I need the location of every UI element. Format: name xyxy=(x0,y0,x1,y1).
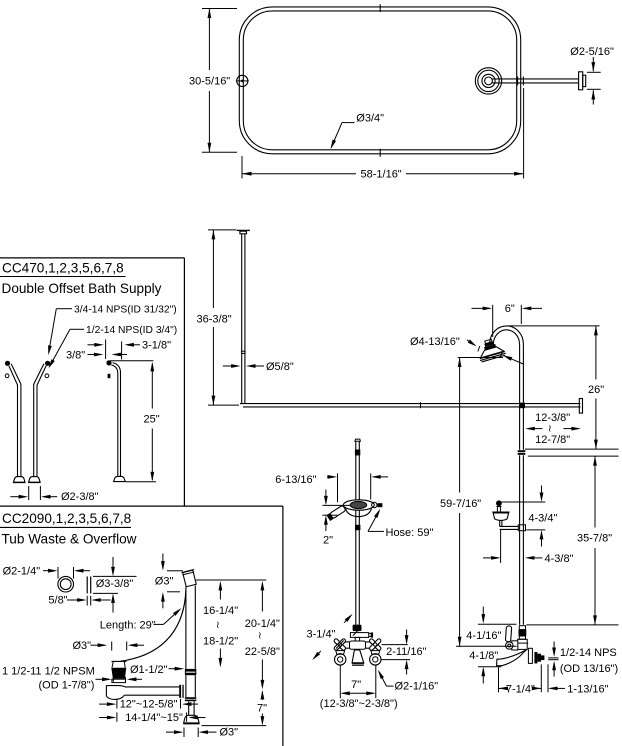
dim text 18-1/2 xyxy=(203,636,238,648)
label npsm leader xyxy=(96,677,112,681)
rod joint ticks xyxy=(241,351,246,353)
box shared border xyxy=(0,505,283,507)
dim 6 ext left xyxy=(492,305,494,337)
dim 3/8 arrows xyxy=(88,353,128,357)
svg-text:3/4-14 NPS(ID 31/32"): 3/4-14 NPS(ID 31/32") xyxy=(74,305,177,316)
svg-text:Hose: 59": Hose: 59" xyxy=(386,527,434,539)
drain locknut xyxy=(112,679,126,682)
dim text 3-1/8 xyxy=(142,340,171,352)
svg-text:CC2090,1,2,3,5,6,7,8: CC2090,1,2,3,5,6,7,8 xyxy=(2,511,131,526)
tube2 slant xyxy=(34,364,46,385)
dim 35-7/8 line xyxy=(593,456,597,625)
dim text 30-5/16 xyxy=(189,76,230,88)
dim 05/8 arrow right xyxy=(246,364,264,368)
dim 3-1/8 ext left xyxy=(105,340,107,360)
valve body xyxy=(517,639,529,649)
dim 30-5/16 ext top xyxy=(202,8,237,10)
dim 58-1/16 line xyxy=(242,172,524,176)
valve knob xyxy=(506,642,513,649)
oval bottom center tick xyxy=(379,149,381,157)
dim 14-x row2 xyxy=(99,712,117,721)
overflow head datum xyxy=(196,579,266,581)
dim text 02-5/16 xyxy=(570,46,614,58)
curtain rod oval inner xyxy=(243,11,516,150)
svg-text:(12-3/8"~2-3/8"): (12-3/8"~2-3/8") xyxy=(320,698,398,710)
tube3 bottom datum xyxy=(125,481,156,483)
svg-text:Ø2-1/16": Ø2-1/16" xyxy=(395,681,439,693)
svg-text:4-1/8": 4-1/8" xyxy=(469,650,498,662)
slide bar stop xyxy=(355,450,360,456)
gooseneck outer arc xyxy=(490,326,524,344)
dim 6-13/16 ext right xyxy=(370,473,372,499)
soap dish elbow pipe xyxy=(500,526,519,529)
riser pipe middle xyxy=(520,455,524,625)
dim 3-1/8 ext right xyxy=(121,341,123,359)
dim 36-3/8 ext top xyxy=(208,229,237,231)
svg-text:2-11/16": 2-11/16" xyxy=(386,646,426,658)
dim 2-11/16 ext top xyxy=(382,644,408,646)
dim 36-3/8 ext bottom xyxy=(208,404,239,406)
dim 03-3/8 arrow bottom xyxy=(111,593,115,612)
tube2 inlet ring xyxy=(45,374,49,378)
dim 6 ext right xyxy=(520,305,522,324)
dim text 02-3/8 xyxy=(61,491,99,503)
dim 03-3/8 ext bottom xyxy=(93,592,118,594)
dim 3-1/4 arrow upper xyxy=(344,614,353,623)
dim 04-13/16 tick left xyxy=(478,346,480,352)
soap dish coupling xyxy=(518,525,525,531)
dim text 59-7/16 xyxy=(440,498,481,510)
dim text 22-5/8 xyxy=(245,646,280,658)
right cross handle xyxy=(369,638,382,651)
dim text 02-1/4 xyxy=(3,566,41,578)
waste shoe coupling xyxy=(185,669,196,675)
handshower holder oval xyxy=(343,500,374,510)
right supply ring xyxy=(370,654,381,665)
faucet stem xyxy=(355,637,359,643)
wall plate xyxy=(579,72,586,90)
rod-riser joint xyxy=(520,403,525,409)
dim 7 tub line xyxy=(261,690,265,726)
label text 3/4-14 xyxy=(74,305,177,316)
diverter rod tip xyxy=(371,632,373,637)
svg-text:35-7/8": 35-7/8" xyxy=(577,533,612,545)
label length29 leader xyxy=(154,608,182,624)
dim 7 ext left xyxy=(339,666,341,699)
svg-text:58-1/16": 58-1/16" xyxy=(361,169,402,181)
dim 03 base arrows xyxy=(166,730,217,734)
riser union xyxy=(518,450,526,455)
dim 25 line xyxy=(150,362,154,482)
dim text 2 xyxy=(323,535,333,547)
dim 02-1/4 ext xyxy=(58,567,74,579)
tailpipe base xyxy=(183,715,199,724)
overflow pipe xyxy=(186,586,195,669)
waste tee bars xyxy=(179,685,184,698)
dim 3-1/4 tick upper xyxy=(353,628,361,636)
dim 4-3/8 arrows xyxy=(483,556,542,560)
dim text 4-3/4 xyxy=(528,512,557,524)
dim text 7 faucet xyxy=(351,679,361,691)
tube3 base xyxy=(114,476,126,481)
svg-text:Tub Waste & Overflow: Tub Waste & Overflow xyxy=(2,531,137,546)
dim 03 overflow ext xyxy=(167,571,183,592)
dim nps arrow bottom xyxy=(552,661,556,677)
label 03/4 leader xyxy=(331,123,355,149)
label 1/2-14 NPS xyxy=(560,647,617,659)
label 02-1/16 leader xyxy=(378,670,394,686)
tee lower bands xyxy=(185,697,196,701)
dim 5/8 ext xyxy=(87,596,91,606)
svg-text:22-5/8": 22-5/8" xyxy=(245,646,280,658)
svg-text:25": 25" xyxy=(144,414,160,426)
tube1 inlet ring xyxy=(5,374,9,378)
dim 12-x row1 xyxy=(99,699,117,709)
box CC2090 right border xyxy=(282,506,284,746)
tube1 vertical xyxy=(18,384,21,477)
hose connector tip xyxy=(377,503,382,507)
svg-text:≀: ≀ xyxy=(216,620,220,631)
dim 2 ext top xyxy=(322,504,350,506)
dim 02-1/4 arrows xyxy=(43,569,90,573)
dim 3-1/4 arrow lower xyxy=(312,651,321,660)
label 01-1/2 arrow xyxy=(169,667,185,671)
nps ticks xyxy=(548,658,558,660)
dim 12-x row1 right xyxy=(181,699,199,709)
valve hex xyxy=(512,641,518,650)
dim 3-1/4 tick lower xyxy=(336,640,344,648)
dim text 25 xyxy=(144,414,160,426)
holder bracket curve xyxy=(346,509,372,517)
box CC470 right border xyxy=(183,258,185,506)
svg-text:5/8": 5/8" xyxy=(48,595,67,607)
svg-text:Ø4-13/16": Ø4-13/16" xyxy=(410,336,460,348)
dim 2-11/16 ext bottom xyxy=(381,659,410,661)
svg-text:1-13/16": 1-13/16" xyxy=(567,683,608,695)
tube3 vertical xyxy=(118,373,121,477)
svg-text:(OD 13/16"): (OD 13/16") xyxy=(560,663,618,675)
dim 03 drain arrows xyxy=(91,643,145,647)
svg-text:4-3/8": 4-3/8" xyxy=(545,553,574,565)
dim nps arrow top xyxy=(552,642,556,658)
dim text 3/8 xyxy=(66,349,85,361)
dim 02-5/16 tick upper xyxy=(587,71,601,73)
svg-text:Ø5/8": Ø5/8" xyxy=(266,361,294,373)
label text 02-1/16 xyxy=(395,681,439,693)
dim 02-5/16 tick lower xyxy=(587,88,601,90)
label text npsm2 xyxy=(39,680,95,692)
dim 59-7/16 ext top xyxy=(458,357,503,359)
dim text 3-1/4 xyxy=(307,629,336,641)
faucet body xyxy=(338,642,377,648)
dim 2 ext bottom xyxy=(322,514,338,516)
diverter fitting xyxy=(353,625,362,632)
svg-text:59-7/16": 59-7/16" xyxy=(440,498,481,510)
svg-text:16-1/4": 16-1/4" xyxy=(203,605,238,617)
svg-text:Ø1-1/2": Ø1-1/2" xyxy=(130,664,168,676)
dim 58-1/16 ext left xyxy=(241,156,243,178)
dim text 16-1/4 xyxy=(203,605,238,617)
dim 4-3/4 arrows xyxy=(540,486,544,547)
dim 4-3/4 ext top xyxy=(501,501,545,503)
dim text 20-1/4 xyxy=(245,618,280,630)
curtain rod oval outer xyxy=(239,7,520,154)
svg-text:3-1/4": 3-1/4" xyxy=(307,629,336,641)
faucet body center xyxy=(350,641,366,649)
left union nut xyxy=(336,651,345,655)
svg-text:1 1/2-11 1/2 NPSM: 1 1/2-11 1/2 NPSM xyxy=(2,665,95,677)
holder right ring xyxy=(372,502,377,507)
dim 26 line xyxy=(594,326,598,449)
faucet spout cone xyxy=(352,650,364,665)
soap dish stem xyxy=(497,507,500,512)
dim 7 ext right xyxy=(375,666,377,699)
rod mid tick xyxy=(420,402,422,408)
drain thread xyxy=(111,668,126,679)
showerhead xyxy=(475,336,506,362)
title CC470 underline xyxy=(0,276,126,278)
valve datum right xyxy=(526,624,618,626)
label text hose xyxy=(386,527,434,539)
gooseneck top datum xyxy=(509,325,600,327)
dim 4-1/16 arrow top xyxy=(481,607,485,624)
svg-text:Ø3": Ø3" xyxy=(73,640,92,652)
title CC2090 sub xyxy=(2,531,137,546)
dim 04-13/16 tick right xyxy=(500,352,502,358)
svg-text:Ø2-3/8": Ø2-3/8" xyxy=(61,491,99,503)
soap dish knob xyxy=(496,500,502,506)
svg-text:6-13/16": 6-13/16" xyxy=(275,474,316,486)
label hose leader xyxy=(368,509,384,532)
tube1 base xyxy=(13,477,25,483)
tube1 slant xyxy=(9,364,21,385)
dim tilde right xyxy=(548,424,552,435)
drain flange top xyxy=(112,661,127,667)
svg-text:3/8": 3/8" xyxy=(66,349,85,361)
overflow pipe lower xyxy=(186,675,195,697)
tube3 top datum xyxy=(110,360,153,362)
dim 02-3/8 arrows xyxy=(10,495,57,499)
svg-text:Ø2-1/4": Ø2-1/4" xyxy=(3,566,41,578)
right wall flange xyxy=(475,68,501,94)
valve lever xyxy=(505,626,511,642)
dim 3-1/8 arrows xyxy=(88,343,141,347)
overflow head xyxy=(181,570,197,587)
dim text 14-row2 xyxy=(125,712,183,724)
ceiling flange xyxy=(237,230,250,233)
handshower grip xyxy=(326,505,346,521)
svg-text:1/2-14 NPS(ID 3/4"): 1/2-14 NPS(ID 3/4") xyxy=(86,325,177,336)
svg-text:12"~12-5/8": 12"~12-5/8" xyxy=(120,699,178,711)
dim text 1-13/16 xyxy=(567,683,608,695)
svg-text:6": 6" xyxy=(505,303,515,315)
tube2 vertical xyxy=(34,384,37,477)
dim 4-3/4 ext bottom xyxy=(526,529,545,531)
dim text 6-13/16 xyxy=(275,474,316,486)
union datum lower xyxy=(528,455,619,457)
dim 59-7/16 line xyxy=(458,358,462,647)
dim text 03 drain xyxy=(73,640,92,652)
dim 16-x line xyxy=(219,581,223,668)
soap dish drop pipe xyxy=(500,521,502,527)
label text length29 xyxy=(100,619,156,631)
dim 03 overflow arrow bottom xyxy=(161,592,165,608)
title CC470 sub xyxy=(2,281,162,296)
svg-text:Ø3": Ø3" xyxy=(220,727,239,739)
dim text 2-11/16 xyxy=(386,646,426,658)
dim text 03 base xyxy=(220,727,239,739)
dim text 4-1/8 xyxy=(469,650,498,662)
tube1 inlet ball xyxy=(5,361,10,366)
curtain rod horizontal xyxy=(240,404,581,407)
label text 1/2-14 xyxy=(86,325,177,336)
gooseneck inner arc xyxy=(493,330,519,344)
union datum upper xyxy=(525,448,619,450)
label 3/4-14 leader xyxy=(48,309,72,355)
dim 30-5/16 line xyxy=(208,9,212,153)
svg-text:4-1/16": 4-1/16" xyxy=(466,630,501,642)
dim 03 drain ext xyxy=(112,642,127,651)
handshower holder core xyxy=(350,501,367,508)
rod end bracket xyxy=(579,399,582,414)
label 1/2-14 leader xyxy=(49,329,85,368)
spout center datum xyxy=(456,645,517,647)
dim 04-13/16 leader right xyxy=(503,355,524,364)
dim text 26 xyxy=(588,384,604,396)
dim 03 overflow arrow top xyxy=(161,554,165,571)
spout bottom datum xyxy=(478,666,501,668)
left cross handle xyxy=(333,638,346,651)
svg-text:Length: 29": Length: 29" xyxy=(100,619,156,631)
svg-text:3-1/8": 3-1/8" xyxy=(142,340,171,352)
dim 36-3/8 line xyxy=(212,230,216,405)
spout elbow right xyxy=(528,648,532,663)
waste pipe horizontal xyxy=(124,687,179,695)
svg-text:2": 2" xyxy=(323,535,333,547)
npsm ticks xyxy=(113,677,125,682)
dim text 35-7/8 xyxy=(577,533,612,545)
overflow washer bar xyxy=(87,576,91,593)
dim text 7 tub xyxy=(257,703,267,715)
npsm arrow right xyxy=(127,677,142,681)
overflow ring xyxy=(58,576,74,592)
dim text 7-1/4 xyxy=(506,683,535,695)
slide bar cap xyxy=(355,439,361,441)
svg-text:36-3/8": 36-3/8" xyxy=(197,313,232,325)
svg-text:12-7/8": 12-7/8" xyxy=(535,434,570,446)
diverter cross body xyxy=(350,633,368,638)
svg-text:CC470,1,2,3,5,6,7,8: CC470,1,2,3,5,6,7,8 xyxy=(2,260,124,275)
svg-text:30-5/16": 30-5/16" xyxy=(189,76,230,88)
left support bracket xyxy=(236,75,249,86)
dim 4-3/8 ext xyxy=(500,530,502,563)
overflow tube curve xyxy=(121,590,186,661)
valve datum left xyxy=(478,623,517,625)
dim 58-1/16 ext right xyxy=(523,88,525,178)
svg-text:26": 26" xyxy=(588,384,604,396)
svg-text:1/2-14 NPS: 1/2-14 NPS xyxy=(560,647,617,659)
dim 02-5/16 line lower xyxy=(591,90,595,105)
tube2 inlet ball xyxy=(45,361,50,366)
label text 01-1/2 xyxy=(130,664,168,676)
svg-text:≀: ≀ xyxy=(258,631,262,642)
dim text 5/8 xyxy=(48,595,67,607)
dim 02-5/16 line upper xyxy=(591,57,595,72)
svg-text:18-1/2": 18-1/2" xyxy=(203,636,238,648)
valve coupling xyxy=(519,626,527,640)
dim 12-7/8 text xyxy=(535,434,570,446)
soap dish xyxy=(492,512,509,520)
dim text 36-3/8 xyxy=(197,313,232,325)
ceiling support rod xyxy=(242,234,245,404)
nipple flange xyxy=(534,652,544,663)
dim text 04-13/16 xyxy=(410,336,460,348)
dim text 58-1/16 xyxy=(361,169,402,181)
dim 7-1/4 ext right xyxy=(540,664,542,692)
dim 2 arrows xyxy=(324,490,328,532)
oval top center tick xyxy=(379,4,381,12)
dim 1-13/16 ext xyxy=(547,664,549,692)
dim 04-13/16 leader left xyxy=(467,340,477,347)
tube3 inlet ball xyxy=(106,360,111,365)
dim 03-3/8 ext top xyxy=(93,575,137,577)
diverter rod xyxy=(369,634,371,637)
svg-text:7": 7" xyxy=(351,679,361,691)
dim 6-13/16 ext left xyxy=(337,473,339,502)
dim 6-13/16 arrows xyxy=(327,475,388,479)
label text 03/4 xyxy=(356,112,384,124)
svg-text:Ø2-5/16": Ø2-5/16" xyxy=(570,46,614,58)
hose fitting xyxy=(355,525,360,530)
svg-text:Ø3-3/8": Ø3-3/8" xyxy=(96,578,134,590)
svg-text:Ø3": Ø3" xyxy=(155,575,174,587)
dim text 05/8 xyxy=(266,361,294,373)
svg-text:(OD 1-7/8"): (OD 1-7/8") xyxy=(39,680,95,692)
slide bar xyxy=(356,441,360,624)
dim tilde 16 xyxy=(216,620,220,631)
svg-text:7": 7" xyxy=(257,703,267,715)
dim 20-x line xyxy=(261,581,265,690)
dim 05/8 arrow left xyxy=(223,364,241,368)
title CC2090 xyxy=(2,511,131,526)
right union nut xyxy=(371,651,380,655)
dim text 6 xyxy=(505,303,515,315)
svg-text:4-3/4": 4-3/4" xyxy=(528,512,557,524)
dim text 12-3/8 range xyxy=(320,698,398,710)
dim 02-3/8 ext xyxy=(29,486,41,500)
dim text 03-3/8 xyxy=(96,578,134,590)
dim 03-3/8 arrow top xyxy=(111,557,115,576)
dim 12-3/8 text xyxy=(535,412,570,424)
dim text 4-1/16 xyxy=(466,630,501,642)
dim 1-13/16 arrow xyxy=(548,687,565,691)
dim 5/8 arrows xyxy=(67,598,111,602)
label OD 13/16 xyxy=(560,663,618,675)
label text npsm xyxy=(2,665,95,677)
dim tilde 20 xyxy=(258,631,262,642)
tailpipe xyxy=(189,701,194,715)
dim 2-11/16 arrows xyxy=(405,630,409,675)
dim 14-x row2 right xyxy=(187,712,206,721)
svg-text:Ø3/4": Ø3/4" xyxy=(356,112,384,124)
rod collar at oval xyxy=(518,77,524,86)
tub spout xyxy=(497,650,527,666)
drain elbow xyxy=(106,686,125,700)
tube3 outlet stub xyxy=(108,374,111,378)
left supply ring xyxy=(335,654,346,665)
floor datum xyxy=(202,725,267,727)
tube2 base xyxy=(28,477,40,483)
